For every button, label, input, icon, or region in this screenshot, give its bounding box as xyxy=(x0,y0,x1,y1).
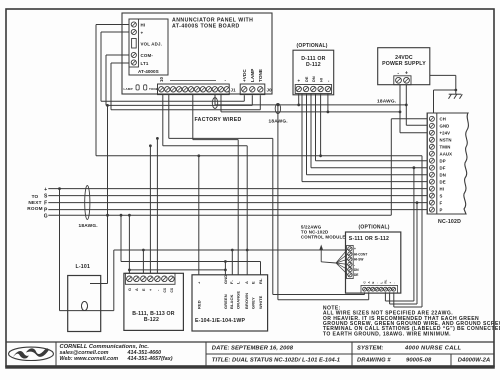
svg-text:NC-102D: NC-102D xyxy=(438,219,461,225)
svg-text:B-122: B-122 xyxy=(144,317,159,323)
svg-text:(OPTIONAL): (OPTIONAL) xyxy=(359,225,390,231)
svg-text:RL: RL xyxy=(258,278,263,284)
svg-text:(OPTIONAL): (OPTIONAL) xyxy=(297,43,328,49)
svg-text:TMIN: TMIN xyxy=(440,145,451,150)
svg-text:HI: HI xyxy=(440,186,445,191)
svg-text:F-: F- xyxy=(229,279,234,284)
svg-text:DN: DN xyxy=(312,76,316,82)
svg-text:AT-4000S TONE BOARD: AT-4000S TONE BOARD xyxy=(172,24,240,30)
svg-text:COM-: COM- xyxy=(141,53,154,58)
svg-text:GREEN: GREEN xyxy=(223,294,228,309)
svg-text:CS: CS xyxy=(170,288,174,293)
svg-text:VOL ADJ.: VOL ADJ. xyxy=(141,42,163,47)
svg-text:DN: DN xyxy=(440,172,446,177)
svg-text:SYSTEM:: SYSTEM: xyxy=(357,345,383,351)
svg-text:F: F xyxy=(44,200,47,206)
svg-text:414-351-4657(fax): 414-351-4657(fax) xyxy=(127,356,173,362)
svg-text:G: G xyxy=(44,214,48,220)
svg-text:+: + xyxy=(141,31,144,36)
svg-text:FACTORY WIRED: FACTORY WIRED xyxy=(195,117,242,123)
svg-text:G: G xyxy=(128,288,132,291)
svg-text:TONE: TONE xyxy=(149,87,158,91)
svg-text:HI: HI xyxy=(141,23,146,28)
svg-text:AAUX: AAUX xyxy=(440,152,453,157)
svg-text:WHITE: WHITE xyxy=(258,295,263,309)
svg-text:CONTROL MODULE: CONTROL MODULE xyxy=(301,235,346,240)
svg-text:NSTN: NSTN xyxy=(440,138,452,143)
svg-text:HI: HI xyxy=(320,78,324,82)
svg-text:DE: DE xyxy=(354,273,358,277)
svg-text:E: E xyxy=(250,281,255,284)
svg-text:DP: DP xyxy=(440,159,446,164)
svg-text:D-112: D-112 xyxy=(306,62,321,68)
svg-text:CS: CS xyxy=(163,288,167,293)
svg-text:E: E xyxy=(142,288,146,291)
svg-text:LAMP: LAMP xyxy=(124,87,133,91)
svg-text:18AWG.: 18AWG. xyxy=(79,223,98,229)
svg-text:J1: J1 xyxy=(231,87,237,92)
svg-text:DUAL STATUS NC-102D/ L-101 E-1: DUAL STATUS NC-102D/ L-101 E-104-1 xyxy=(232,357,340,363)
svg-text:HI-SW: HI-SW xyxy=(354,258,363,262)
svg-text:P: P xyxy=(44,207,48,213)
svg-text:TO: TO xyxy=(32,194,39,199)
svg-text:LT1: LT1 xyxy=(141,61,149,66)
svg-text:DATE:: DATE: xyxy=(212,345,230,351)
svg-text:E-104-1/E-104-1WP: E-104-1/E-104-1WP xyxy=(195,318,245,324)
svg-text:P: P xyxy=(440,207,443,212)
svg-text:A: A xyxy=(135,288,139,291)
svg-text:Web: www.cornell.com: Web: www.cornell.com xyxy=(60,356,119,362)
svg-text:18AWG.: 18AWG. xyxy=(377,98,396,104)
svg-text:GND: GND xyxy=(223,275,228,284)
svg-text:LAMP: LAMP xyxy=(250,69,255,82)
svg-text:-: - xyxy=(392,282,396,283)
svg-text:A: A xyxy=(244,281,249,284)
svg-text:S: S xyxy=(440,193,443,198)
svg-text:D4000W-2A: D4000W-2A xyxy=(458,357,491,363)
svg-text:DF: DF xyxy=(440,165,446,170)
svg-text:GND: GND xyxy=(440,124,450,129)
svg-text:BROWN: BROWN xyxy=(244,293,249,309)
svg-text:-: - xyxy=(225,78,227,83)
svg-text:-: - xyxy=(354,263,355,267)
svg-text:DE: DE xyxy=(440,179,446,184)
svg-text:CH: CH xyxy=(440,117,446,122)
svg-text:TO EARTH GROUND, 18AWG. WIRE M: TO EARTH GROUND, 18AWG. WIRE MINIMUM. xyxy=(323,331,451,337)
svg-text:S-111 OR S-112: S-111 OR S-112 xyxy=(349,236,389,242)
svg-text:AT-4000S: AT-4000S xyxy=(138,69,159,74)
svg-text:90005-08: 90005-08 xyxy=(406,357,432,363)
svg-text:18AWG.: 18AWG. xyxy=(269,118,288,124)
svg-text:+VDC: +VDC xyxy=(242,69,247,82)
svg-text:+24V: +24V xyxy=(440,131,451,136)
svg-text:SEPTEMBER 16, 2008: SEPTEMBER 16, 2008 xyxy=(231,345,294,351)
svg-text:J0: J0 xyxy=(267,87,273,92)
svg-text:+: + xyxy=(354,247,356,251)
svg-text:10: 10 xyxy=(159,76,164,82)
svg-text:+: + xyxy=(44,187,47,193)
svg-text:GREY: GREY xyxy=(250,297,255,309)
svg-text:TITLE:: TITLE: xyxy=(212,357,231,363)
svg-text:F: F xyxy=(440,200,443,205)
svg-text:RED: RED xyxy=(196,300,201,309)
svg-text:DN: DN xyxy=(354,268,359,272)
svg-text:4000 NURSE CALL: 4000 NURSE CALL xyxy=(404,345,462,351)
svg-text:ORANGE: ORANGE xyxy=(236,291,241,309)
svg-text:POWER SUPPLY: POWER SUPPLY xyxy=(382,61,426,67)
svg-text:DRAWING #: DRAWING # xyxy=(357,357,391,363)
svg-text:HI-CONT: HI-CONT xyxy=(354,252,367,256)
svg-text:DE: DE xyxy=(305,76,309,82)
svg-text:L-101: L-101 xyxy=(76,264,91,270)
svg-text:NEXT: NEXT xyxy=(28,200,41,205)
svg-text:ROOM: ROOM xyxy=(27,206,42,211)
svg-text:S: S xyxy=(44,193,48,199)
svg-text:BLACK: BLACK xyxy=(229,294,234,309)
svg-text:+: + xyxy=(297,79,302,82)
svg-text:TONE: TONE xyxy=(258,69,263,82)
